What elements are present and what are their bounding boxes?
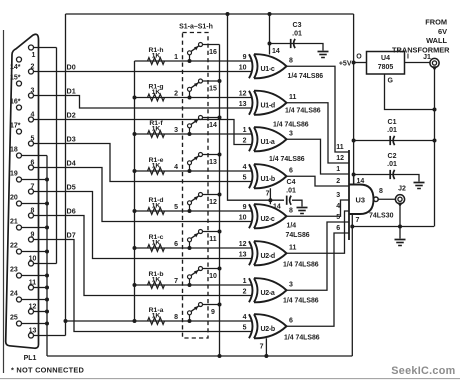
- svg-text:11: 11: [336, 144, 344, 151]
- svg-text:7: 7: [266, 190, 270, 197]
- svg-text:3: 3: [336, 192, 340, 199]
- svg-text:7805: 7805: [378, 64, 394, 71]
- label 1/4 74LS86 U1-a: [273, 122, 309, 129]
- node bus row7: [133, 283, 137, 287]
- wire J1 sleeve ground vertical: [434, 68, 436, 227]
- node pin23 bus join: [45, 274, 49, 278]
- node +5V row8 tap: [64, 319, 68, 323]
- svg-text:U2-c: U2-c: [261, 216, 275, 223]
- wire row2: [135, 97, 253, 99]
- svg-text:1K: 1K: [152, 52, 161, 59]
- svg-text:U2-d: U2-d: [261, 253, 275, 260]
- wire C2 line: [354, 175, 419, 182]
- svg-text:12: 12: [239, 241, 247, 248]
- resistor R1-d: [148, 197, 165, 214]
- wire switch output bus: [219, 45, 221, 357]
- svg-text:C3: C3: [293, 22, 302, 29]
- wire row6: [135, 247, 253, 249]
- svg-text:TRANSFORMER: TRANSFORMER: [392, 45, 450, 54]
- switch S1 row 7 (pins 7/10): [174, 267, 221, 288]
- node C1 right: [433, 139, 437, 143]
- PL1 pin 18: [10, 147, 22, 159]
- svg-text:1: 1: [336, 166, 340, 173]
- svg-text:14: 14: [272, 48, 280, 55]
- PL1 pin 23: [10, 267, 22, 279]
- node pin11 bus join: [45, 286, 49, 290]
- svg-text:6: 6: [174, 241, 178, 248]
- node C4 junction: [268, 198, 272, 202]
- label U4 pin G: [388, 78, 394, 85]
- svg-text:WALL: WALL: [426, 36, 447, 45]
- svg-text:11: 11: [289, 94, 297, 101]
- node pin20 bus join: [45, 202, 49, 206]
- svg-text:3: 3: [174, 127, 178, 134]
- svg-text:D7: D7: [67, 230, 76, 239]
- jack J1: [430, 58, 439, 70]
- node pin24 bus join: [45, 298, 49, 302]
- label J1: [423, 54, 431, 61]
- capacitor C1: [387, 119, 397, 145]
- svg-text:16: 16: [209, 49, 217, 56]
- wire ground run under U3: [352, 226, 434, 228]
- label U3 pin 7: [356, 217, 360, 224]
- ground C2: [414, 183, 425, 189]
- PL1 pin 6: [29, 159, 35, 170]
- PL1 pin 21: [10, 219, 22, 231]
- svg-text:U1-d: U1-d: [261, 103, 275, 110]
- node bus row4: [133, 169, 137, 173]
- svg-text:74LS30: 74LS30: [369, 213, 394, 220]
- resistor R1-g: [148, 84, 165, 101]
- svg-text:11: 11: [29, 279, 37, 286]
- wire 7805 G to ground: [385, 74, 435, 110]
- PL1 pin 1: [29, 45, 36, 59]
- node C1 left: [352, 139, 356, 143]
- svg-text:1K: 1K: [152, 239, 161, 246]
- label U3 pin 11: [336, 144, 344, 151]
- wire pin13 stub: [34, 335, 66, 337]
- node pin21 bus join: [45, 226, 49, 230]
- PL1 pin 25: [10, 315, 22, 327]
- svg-text:J2: J2: [398, 186, 406, 193]
- svg-text:2: 2: [243, 138, 247, 145]
- label J2: [398, 186, 406, 193]
- ground C3: [318, 52, 329, 58]
- wire U2-c output to U3 pin 3: [287, 200, 350, 216]
- jack J2: [395, 195, 404, 207]
- svg-text:1K: 1K: [152, 312, 161, 319]
- wire row3: [135, 133, 253, 135]
- switch S1 row 6 (pins 6/11): [174, 230, 221, 251]
- svg-text:5: 5: [174, 204, 178, 211]
- svg-text:2: 2: [243, 289, 247, 296]
- wire U2-d output to U3 pin 4: [287, 211, 350, 253]
- node row8 bus join: [133, 319, 137, 323]
- node pin25 bus join: [45, 322, 49, 326]
- node U2-b pin7 rail join: [264, 354, 268, 358]
- svg-text:.01: .01: [292, 31, 302, 38]
- wire ground riser to bottom rail: [351, 227, 353, 357]
- node bus row3: [133, 132, 137, 136]
- wire row8 extension: [66, 320, 135, 322]
- node +5V 7805 output: [352, 61, 356, 65]
- resistor R1-c: [148, 234, 165, 251]
- PL1 pin 14: [10, 57, 22, 71]
- label U2-c pin 14: [273, 204, 281, 211]
- svg-text:1: 1: [174, 54, 178, 61]
- svg-text:+5V: +5V: [339, 61, 352, 68]
- node bus row5: [133, 209, 137, 213]
- capacitor C2: [387, 153, 397, 179]
- PL1 pin 17: [10, 123, 22, 135]
- label 1/4 74LS86 U2-c: [286, 223, 310, 240]
- svg-text:15: 15: [209, 85, 217, 92]
- PL1 pin 9: [29, 231, 35, 242]
- wire row4: [135, 170, 253, 172]
- svg-text:20: 20: [10, 195, 18, 202]
- svg-text:J1: J1: [423, 54, 431, 61]
- node G ground join: [433, 108, 437, 112]
- svg-text:D1: D1: [67, 86, 76, 95]
- wire U1-c output to U3 pin 11: [287, 66, 350, 152]
- svg-text:1/4: 1/4: [287, 223, 297, 230]
- svg-text:7: 7: [260, 344, 264, 351]
- svg-text:C2: C2: [388, 153, 397, 160]
- resistor R1-f: [148, 120, 165, 137]
- PL1 pin 2: [29, 63, 35, 74]
- wire pin20 stub: [22, 203, 48, 205]
- PL1 pin 8: [29, 207, 35, 218]
- PL1 pin 11: [29, 279, 37, 290]
- page border bottom: [0, 378, 460, 380]
- svg-text:7: 7: [174, 278, 178, 285]
- label 1/4 74LS86 U2-a: [283, 297, 319, 304]
- switch S1 row 5 (pins 5/12): [174, 193, 221, 214]
- capacitor C4: [286, 179, 296, 205]
- svg-text:1/4 74LS86: 1/4 74LS86: [285, 108, 321, 115]
- wire ground bottom rail: [47, 355, 352, 357]
- svg-text:8: 8: [289, 58, 293, 65]
- svg-text:1/4 74LS86: 1/4 74LS86: [283, 262, 319, 269]
- wire U1-a output to U3 pin 1: [287, 139, 350, 174]
- svg-text:U1-b: U1-b: [261, 176, 275, 183]
- svg-text:22: 22: [10, 243, 18, 250]
- svg-text:2: 2: [31, 63, 35, 70]
- svg-text:S1-a–S1-h: S1-a–S1-h: [179, 24, 213, 31]
- svg-text:13: 13: [239, 252, 247, 259]
- PL1 pin 16: [10, 99, 22, 111]
- wire U2-b pin7 stub: [265, 338, 267, 356]
- svg-text:2: 2: [336, 178, 340, 185]
- label U4 pin O: [356, 54, 362, 61]
- svg-text:14: 14: [357, 178, 365, 185]
- label U2-b pin 7: [260, 344, 264, 351]
- watermark SeekIC.com: [391, 365, 455, 377]
- node switch bus bottom: [218, 354, 222, 358]
- label U3 pin 12: [336, 155, 344, 162]
- svg-text:1: 1: [243, 278, 247, 285]
- svg-text:1/4 74LS86: 1/4 74LS86: [273, 122, 309, 129]
- label D7: [67, 230, 76, 239]
- XOR gate U1-c (1/4 74LS86): [239, 54, 293, 78]
- label U3 pin 14: [357, 178, 365, 185]
- label FROM 6V WALL TRANSFORMER: [392, 18, 450, 55]
- svg-text:I: I: [407, 54, 409, 61]
- label D2: [67, 110, 76, 119]
- wire U1-b pin7 / U2-c pin14 vertical: [269, 188, 271, 204]
- PL1 pin 22: [10, 243, 22, 255]
- wire U2-b output to U3 pin 6: [287, 233, 350, 326]
- svg-text:6: 6: [31, 159, 35, 166]
- PL1 pin 13: [29, 327, 37, 338]
- wire D5 from PL1 pin 7: [34, 192, 253, 259]
- svg-text:11: 11: [209, 236, 217, 243]
- svg-text:D0: D0: [67, 62, 76, 71]
- XOR gate U2-b (1/4 74LS86): [243, 314, 293, 338]
- node C3 left: [268, 42, 272, 46]
- node C3 rail tap: [268, 12, 272, 16]
- switch S1 row 1 (pins 1/16): [174, 43, 219, 64]
- wire U1-d output to U3 pin 12: [287, 103, 350, 163]
- wire U3 pin14 stub: [353, 175, 355, 185]
- svg-text:74LS86: 74LS86: [286, 232, 310, 239]
- wire D1 from PL1 pin 3: [34, 96, 253, 109]
- wire D7 from PL1 pin 9: [34, 240, 253, 332]
- svg-text:8: 8: [379, 188, 383, 195]
- PL1 pin 12: [29, 303, 37, 314]
- label U3 pin 4: [336, 203, 340, 210]
- svg-text:19: 19: [10, 171, 18, 178]
- wire C4 to ground: [292, 200, 302, 206]
- label D3: [67, 134, 76, 143]
- label 1/4 74LS86 U1-b: [269, 156, 305, 163]
- label D1: [67, 86, 76, 95]
- svg-text:1K: 1K: [152, 276, 161, 283]
- wire U3 pin7 stub: [351, 214, 353, 227]
- svg-text:.01: .01: [387, 161, 397, 168]
- PL1 pin 24: [10, 291, 22, 303]
- XOR gate U2-d (1/4 74LS86): [239, 241, 297, 265]
- label 74LS30: [369, 213, 394, 220]
- svg-text:4: 4: [243, 314, 247, 321]
- svg-text:3: 3: [31, 87, 35, 94]
- label U3 pin 3: [336, 192, 340, 199]
- wire D4 from PL1 pin 6: [34, 168, 253, 222]
- label U3 pin 2: [336, 178, 340, 185]
- node bus row6: [133, 246, 137, 250]
- svg-text:3: 3: [289, 282, 293, 289]
- svg-text:1: 1: [32, 52, 36, 59]
- wire U1-c pin14 vertical: [269, 14, 271, 55]
- PL1 pin 20: [10, 195, 22, 207]
- svg-text:13: 13: [29, 327, 37, 334]
- wire pin1-pin10 vertical: [56, 48, 58, 264]
- svg-text:12: 12: [336, 155, 344, 162]
- svg-text:25: 25: [10, 315, 18, 322]
- svg-text:D2: D2: [67, 110, 76, 119]
- wire pin10 stub: [34, 263, 57, 265]
- label 1/4 74LS86 U1-d: [285, 108, 321, 115]
- svg-text:7: 7: [31, 183, 35, 190]
- svg-text:9: 9: [243, 54, 247, 61]
- svg-text:5: 5: [243, 175, 247, 182]
- svg-text:4: 4: [243, 164, 247, 171]
- wire pin24 stub: [22, 299, 48, 301]
- wire row5: [135, 210, 253, 212]
- svg-text:8: 8: [174, 314, 178, 321]
- label D0: [67, 62, 76, 71]
- node pin19 bus join: [45, 178, 49, 182]
- svg-text:11: 11: [289, 245, 297, 252]
- svg-text:10: 10: [209, 273, 217, 280]
- svg-text:18: 18: [10, 147, 18, 154]
- wire +5V mid vertical: [228, 14, 285, 200]
- svg-text:13: 13: [209, 159, 217, 166]
- svg-text:7: 7: [356, 217, 360, 224]
- svg-text:5: 5: [31, 135, 35, 142]
- svg-text:9: 9: [211, 309, 215, 316]
- wire 7805 input to J1: [405, 62, 431, 64]
- svg-text:10: 10: [239, 215, 247, 222]
- PL1 pin 19: [10, 171, 22, 183]
- page border left: [3, 30, 5, 373]
- resistor R1-e: [148, 157, 165, 174]
- svg-text:10: 10: [29, 255, 37, 262]
- label D6: [67, 206, 76, 215]
- node C2 left: [352, 173, 356, 177]
- label U1-b pin 7: [266, 190, 270, 197]
- wire D3 from PL1 pin 5: [34, 144, 253, 182]
- svg-text:1/4 74LS86: 1/4 74LS86: [283, 297, 319, 304]
- label S1-a–S1-h: [179, 24, 213, 31]
- svg-text:1K: 1K: [152, 89, 161, 96]
- label U3 pin 1: [336, 166, 340, 173]
- svg-text:24: 24: [10, 291, 18, 298]
- label U3 pin 6: [336, 225, 340, 232]
- resistor R1-a: [148, 307, 165, 324]
- svg-text:5: 5: [336, 214, 340, 221]
- svg-text:4: 4: [336, 203, 340, 210]
- switch S1 row 2 (pins 2/15): [174, 79, 221, 100]
- svg-text:12: 12: [29, 303, 37, 310]
- svg-text:5: 5: [243, 325, 247, 332]
- svg-text:12: 12: [239, 91, 247, 98]
- wire +5V left vertical: [65, 14, 67, 336]
- ground J2: [395, 240, 406, 246]
- label D4: [67, 158, 76, 167]
- node J2 ground: [398, 225, 402, 229]
- wire pin25 stub: [22, 323, 48, 325]
- svg-text:U2-b: U2-b: [261, 326, 275, 333]
- svg-text:6: 6: [336, 225, 340, 232]
- wire pin22 stub: [22, 251, 48, 253]
- ground C4: [297, 208, 308, 214]
- label U3 pin 8: [379, 188, 383, 195]
- svg-text:1/4 74LS86: 1/4 74LS86: [284, 334, 320, 341]
- wire U2-a output to U3 pin 5: [287, 222, 350, 290]
- wire J2 sleeve: [399, 205, 401, 227]
- svg-text:1/4 74LS86: 1/4 74LS86: [269, 156, 305, 163]
- svg-text:13: 13: [239, 101, 247, 108]
- switch S1 row 3 (pins 3/14): [174, 116, 221, 137]
- PL1 pin 7: [29, 183, 35, 194]
- label U1-c pin 14: [272, 48, 280, 55]
- svg-text:U4: U4: [381, 55, 390, 62]
- wire ground bus vertical: [46, 156, 48, 357]
- capacitor C3: [291, 22, 302, 48]
- XOR gate U1-d (1/4 74LS86): [239, 91, 297, 115]
- node pin12 bus join: [45, 310, 49, 314]
- wire J2 ground stem: [399, 227, 401, 239]
- label U4 pin I: [407, 54, 409, 61]
- wire pin21 stub: [22, 227, 48, 229]
- wire resistor bus vertical: [134, 61, 136, 321]
- svg-text:6: 6: [289, 168, 293, 175]
- wire +5V top rail: [66, 13, 354, 15]
- PL1 pin 3: [29, 87, 35, 98]
- svg-text:D5: D5: [67, 182, 76, 191]
- resistor R1-b: [148, 271, 165, 288]
- wire C1 line: [354, 140, 435, 142]
- svg-text:14: 14: [273, 204, 281, 211]
- svg-text:10: 10: [239, 65, 247, 72]
- wire +5V right vertical: [353, 14, 355, 185]
- svg-text:1K: 1K: [152, 125, 161, 132]
- svg-text:14*: 14*: [10, 64, 21, 71]
- svg-text:2: 2: [174, 91, 178, 98]
- PL1 pin 15: [10, 75, 22, 87]
- wire C3 line: [270, 44, 324, 51]
- XOR gate U2-a (1/4 74LS86): [243, 278, 293, 302]
- node U3 pin7 corner: [350, 225, 354, 229]
- svg-text:D3: D3: [67, 134, 76, 143]
- label PL1: [24, 355, 37, 362]
- wire pin1 to node: [34, 47, 57, 49]
- svg-text:PL1: PL1: [24, 355, 37, 362]
- svg-text:1K: 1K: [152, 162, 161, 169]
- wire pin23 stub: [22, 275, 48, 277]
- svg-text:8: 8: [289, 208, 293, 215]
- wire D6 from PL1 pin 8: [34, 216, 253, 296]
- wire D2 from PL1 pin 4: [34, 120, 253, 145]
- svg-text:U1-c: U1-c: [261, 66, 275, 73]
- switch S1 row 4 (pins 4/13): [174, 153, 221, 174]
- svg-text:6V: 6V: [438, 27, 447, 36]
- svg-text:23: 23: [10, 267, 18, 274]
- svg-text:15*: 15*: [10, 75, 21, 82]
- svg-text:14: 14: [209, 122, 217, 129]
- resistor R1-h: [148, 47, 165, 64]
- svg-text:* NOT CONNECTED: * NOT CONNECTED: [11, 366, 85, 375]
- svg-text:16*: 16*: [10, 99, 21, 106]
- wire pin18 stub: [22, 155, 48, 157]
- label D5: [67, 182, 76, 191]
- svg-text:SeekIC.com: SeekIC.com: [391, 365, 455, 377]
- switch block S1-a–S1-h box: [183, 33, 209, 339]
- label +5V: [339, 61, 352, 68]
- XOR gate U1-a (1/4 74LS86): [243, 127, 293, 151]
- svg-text:4: 4: [31, 111, 35, 118]
- PL1 pin 4: [29, 111, 35, 122]
- wire row8: [135, 320, 253, 322]
- wire row7: [135, 284, 253, 286]
- wire pin12 stub: [34, 311, 48, 313]
- svg-text:1K: 1K: [152, 202, 161, 209]
- switch S1 row 8 (pins 8/9): [174, 303, 221, 324]
- svg-text:8: 8: [31, 207, 35, 214]
- svg-text:17*: 17*: [10, 123, 21, 130]
- XOR gate U1-b (1/4 74LS86): [243, 164, 293, 188]
